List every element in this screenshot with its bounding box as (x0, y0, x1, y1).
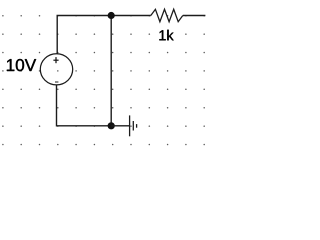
wire: resistor right lead (183, 15, 206, 17)
junction node A (top) (108, 12, 115, 19)
wire: ground stub (111, 125, 129, 127)
V1 plus sign (53, 57, 58, 63)
wire top: node A horizontal from corner to resistor (57, 16, 151, 54)
label 1k (value of R1) (159, 30, 173, 41)
label 10V (value of V1) (7, 59, 36, 71)
resistor R1 (151, 9, 183, 21)
ground symbol (130, 115, 137, 136)
wire bottom: from V1 minus terminal to ground node (57, 85, 112, 126)
V1 minus sign (55, 81, 58, 83)
grid dots (2, 15, 205, 145)
wire right vertical: node A to ground node (110, 16, 112, 126)
junction node B (bottom/ground) (108, 122, 115, 129)
voltage source V1 (40, 54, 72, 85)
